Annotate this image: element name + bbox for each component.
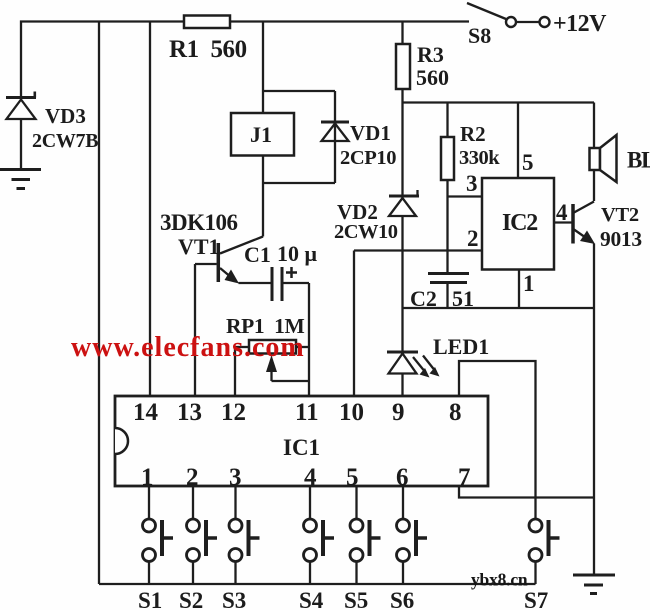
svg-text:11: 11 <box>295 399 319 426</box>
svg-text:3: 3 <box>466 171 478 196</box>
resistor R2 <box>441 103 500 274</box>
potentiometer RP1 <box>226 314 309 381</box>
wire pin10 drop <box>353 251 355 397</box>
wire pin7 to ground <box>459 486 594 498</box>
wire left bus <box>98 22 100 585</box>
svg-text:LED1: LED1 <box>433 334 489 359</box>
svg-text:BL: BL <box>627 148 650 173</box>
wire pin13 drop <box>194 264 196 396</box>
wire emitter to ground <box>593 244 595 576</box>
svg-text:www.elecfans.com: www.elecfans.com <box>71 332 305 363</box>
svg-text:5: 5 <box>522 150 534 175</box>
pin labels IC1 top <box>133 399 462 426</box>
wire J1 bottom to collector <box>262 156 264 237</box>
wire VD1 bottom link <box>263 182 335 184</box>
capacitor C2 <box>410 274 474 312</box>
svg-text:J1: J1 <box>250 122 272 147</box>
wire IC2 pin1 <box>519 270 535 309</box>
svg-text:10 μ: 10 μ <box>277 241 318 266</box>
wire pin12 drop <box>234 347 236 396</box>
svg-text:VT1: VT1 <box>178 234 220 259</box>
svg-text:S3: S3 <box>222 588 246 610</box>
pushbutton S5 <box>344 519 381 613</box>
svg-text:3DK106: 3DK106 <box>160 210 238 235</box>
svg-text:S5: S5 <box>344 588 368 610</box>
wire R3 to VD2 <box>401 89 403 196</box>
svg-text:9013: 9013 <box>600 227 642 251</box>
svg-text:2CW7B: 2CW7B <box>32 130 98 152</box>
wire IC2 pin2 <box>354 226 482 251</box>
pushbutton S1 <box>138 519 173 613</box>
speaker BL <box>590 103 650 202</box>
svg-text:S2: S2 <box>179 588 203 610</box>
svg-text:14: 14 <box>133 399 159 426</box>
svg-text:C1: C1 <box>244 242 271 267</box>
LED1 <box>387 334 489 396</box>
wire emitter to C1 <box>239 282 271 284</box>
svg-text:S6: S6 <box>390 588 414 610</box>
svg-text:1: 1 <box>523 271 535 296</box>
wire bottom rail of oscillator <box>403 307 595 309</box>
svg-text:VD1: VD1 <box>350 121 391 145</box>
svg-text:2CP10: 2CP10 <box>340 147 396 169</box>
svg-text:S7: S7 <box>524 588 548 610</box>
op-amp IC2 <box>482 178 554 270</box>
pin labels IC1 bottom <box>141 464 471 491</box>
wire IC2 pin5 <box>518 103 534 179</box>
pushbutton S7 <box>524 519 560 613</box>
svg-text:2CW10: 2CW10 <box>334 221 398 243</box>
svg-text:560: 560 <box>416 65 449 90</box>
svg-text:330k: 330k <box>459 147 500 169</box>
svg-text:7: 7 <box>458 464 471 491</box>
wire pin8 loop <box>459 361 536 519</box>
svg-text:R3: R3 <box>417 42 444 67</box>
wire oscillator top branch <box>403 101 595 103</box>
svg-text:VD3: VD3 <box>45 104 86 128</box>
svg-text:2: 2 <box>467 226 479 251</box>
pushbutton S6 <box>390 519 427 613</box>
svg-text:S8: S8 <box>468 23 491 48</box>
svg-text:9: 9 <box>392 399 405 426</box>
svg-text:+12V: +12V <box>553 11 607 37</box>
relay J1 <box>231 113 294 156</box>
pushbutton S3 <box>222 519 260 613</box>
svg-text:1: 1 <box>141 464 154 491</box>
svg-text:IC1: IC1 <box>283 435 320 460</box>
pushbutton S2 <box>179 519 217 613</box>
wire IC2 pin4 <box>554 200 572 225</box>
zener diode VD2 <box>334 190 419 352</box>
wire bottom bus <box>99 583 536 585</box>
wire IC2 pin3 <box>448 171 483 197</box>
wire +12V top rail <box>21 22 469 98</box>
capacitor C1 <box>244 241 318 301</box>
svg-text:S4: S4 <box>299 588 324 610</box>
svg-text:4: 4 <box>556 200 568 225</box>
pushbutton S4 <box>299 519 334 613</box>
resistor R1 <box>169 16 247 64</box>
diode VD1 <box>321 91 396 183</box>
svg-text:13: 13 <box>177 399 202 426</box>
svg-text:R1 560: R1 560 <box>169 36 247 63</box>
wire VD1 top link <box>263 90 335 92</box>
transistor VT2 <box>573 202 642 252</box>
wire pin14 drop <box>149 22 151 397</box>
svg-text:VT2: VT2 <box>601 204 639 226</box>
wire J1 top branch <box>262 22 264 114</box>
resistor R3 <box>396 22 449 91</box>
zener diode VD3 <box>6 92 98 169</box>
wire C1 to pin11 <box>284 282 310 284</box>
svg-text:8: 8 <box>449 399 462 426</box>
svg-text:ybx8.cn: ybx8.cn <box>471 570 528 590</box>
transistor VT1 <box>160 210 263 284</box>
svg-text:10: 10 <box>339 399 364 426</box>
ground (right) <box>573 575 615 594</box>
switch S8 <box>467 3 550 48</box>
svg-text:12: 12 <box>221 399 246 426</box>
pin stubs IC1 bottom <box>149 486 403 519</box>
wire pin11 drop <box>308 283 310 396</box>
IC IC1 <box>115 396 488 486</box>
svg-text:R2: R2 <box>460 122 486 146</box>
svg-text:IC2: IC2 <box>502 210 537 236</box>
ground (VD3) <box>0 170 41 189</box>
svg-text:S1: S1 <box>138 588 162 610</box>
